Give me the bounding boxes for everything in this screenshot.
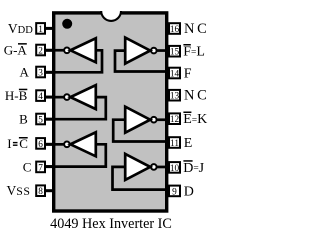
inverter U1E (pin 11 in, pin 12 out): output bubble [151, 117, 157, 123]
inverter U1D (pin 14 in, pin 15 out): output bubble [151, 48, 157, 54]
svg-text:12: 12 [170, 115, 180, 125]
inverter U1A (pin 3 in, pin 2 out): output bubble [64, 48, 70, 54]
pin 9 box [169, 186, 180, 197]
pin 8 stub [45, 189, 54, 192]
svg-text:15: 15 [170, 48, 180, 58]
svg-text:8: 8 [38, 187, 43, 197]
inverter U1C (pin 7 in, pin 6 out): triangle [70, 132, 95, 156]
svg-text:F: F [184, 66, 192, 81]
pin 5 stub [45, 118, 54, 121]
pin 10 box [169, 162, 180, 173]
svg-text:10: 10 [170, 164, 180, 174]
inverter U1E (pin 11 in, pin 12 out): triangle [125, 107, 150, 133]
inverter U1C (pin 7 in, pin 6 out): output bubble [64, 142, 70, 148]
svg-text:3: 3 [38, 68, 43, 78]
inverter U1A (pin 3 in, pin 2 out): triangle [70, 38, 95, 62]
pin 2 stub [45, 49, 54, 52]
inverter U1E (pin 11 in, pin 12 out): output wire from bubble [157, 118, 169, 121]
pin 5 box [36, 114, 45, 125]
inverter U1A (pin 3 in, pin 2 out): input loop wire [45, 50, 102, 72]
inverter U1B (pin 5 in, pin 4 out): output bubble [64, 94, 70, 100]
svg-text:6: 6 [38, 140, 43, 150]
pin 1 stub [45, 27, 54, 30]
notch (package end indicator) [102, 9, 121, 16]
pin 1 box [36, 23, 45, 34]
svg-text:D: D [184, 184, 194, 199]
pin 7 box [36, 162, 45, 173]
pin 15 box [169, 46, 180, 57]
svg-text:13: 13 [170, 92, 180, 102]
inverter U1B (pin 5 in, pin 4 out): triangle [70, 85, 95, 109]
svg-text:E: E [184, 136, 193, 151]
svg-text:VSS: VSS [7, 183, 31, 198]
inverter U1A (pin 3 in, pin 2 out): output wire to bubble [45, 49, 64, 52]
svg-text:C: C [23, 159, 32, 174]
inverter U1C (pin 7 in, pin 6 out): output wire to bubble [45, 143, 64, 146]
svg-text:16: 16 [170, 25, 180, 35]
pin 11 box [169, 137, 180, 148]
inverter U1D (pin 14 in, pin 15 out): triangle [125, 38, 150, 64]
svg-text:2: 2 [38, 46, 43, 56]
svg-text:VDD: VDD [8, 21, 33, 36]
svg-text:4049 Hex Inverter IC: 4049 Hex Inverter IC [50, 216, 172, 232]
inverter U1C (pin 7 in, pin 6 out): input loop wire [45, 144, 106, 166]
svg-text:5: 5 [38, 115, 43, 125]
svg-text:E=K: E=K [183, 112, 207, 127]
inverter U1B (pin 5 in, pin 4 out): output wire to bubble [45, 96, 64, 99]
inverter U1F (pin 9 in, pin 10 out): triangle [125, 154, 150, 180]
pin 8 box [36, 185, 45, 196]
svg-text:I: I [7, 136, 11, 151]
svg-text:D=J: D=J [183, 161, 204, 176]
svg-text:4: 4 [38, 92, 43, 102]
pin 14 box [169, 68, 180, 79]
svg-text:14: 14 [170, 69, 180, 79]
pin 7 stub [45, 165, 54, 168]
pin 2 box [36, 45, 45, 56]
pin 4 stub [45, 96, 54, 99]
inverter U1F (pin 9 in, pin 10 out): input loop wire [113, 167, 169, 190]
svg-text:H-B: H-B [5, 88, 28, 103]
svg-text:F=L: F=L [183, 45, 205, 60]
inverter U1B (pin 5 in, pin 4 out): input loop wire [45, 97, 106, 119]
svg-text:11: 11 [170, 139, 179, 149]
inverter U1F (pin 9 in, pin 10 out): output wire from bubble [157, 166, 169, 169]
inverter U1D (pin 14 in, pin 15 out): output wire from bubble [157, 49, 169, 52]
pin 12 box [169, 113, 180, 124]
pin-1 dot marker [62, 19, 72, 29]
svg-text:G-A: G-A [4, 42, 28, 57]
pin 3 box [36, 67, 45, 78]
IC body U1 (4049 hex inverter, DIP-16) [54, 13, 167, 211]
svg-text:1: 1 [38, 25, 43, 35]
inverter U1E (pin 11 in, pin 12 out): input loop wire [113, 120, 168, 142]
svg-text:NC: NC [184, 21, 209, 37]
pin 4 box [36, 90, 45, 101]
pin 3 stub [45, 71, 54, 74]
pin 13 box [169, 90, 180, 101]
svg-text:NC: NC [184, 88, 209, 104]
svg-text:9: 9 [172, 187, 177, 197]
inverter U1F (pin 9 in, pin 10 out): output bubble [151, 164, 157, 170]
pin 16 box [169, 23, 180, 34]
pin 6 box [36, 138, 45, 149]
svg-text:A: A [20, 64, 30, 79]
svg-text:7: 7 [38, 163, 43, 173]
svg-text:B: B [19, 111, 28, 126]
pin 6 stub [45, 143, 54, 146]
inverter U1D (pin 14 in, pin 15 out): input loop wire [115, 51, 169, 72]
